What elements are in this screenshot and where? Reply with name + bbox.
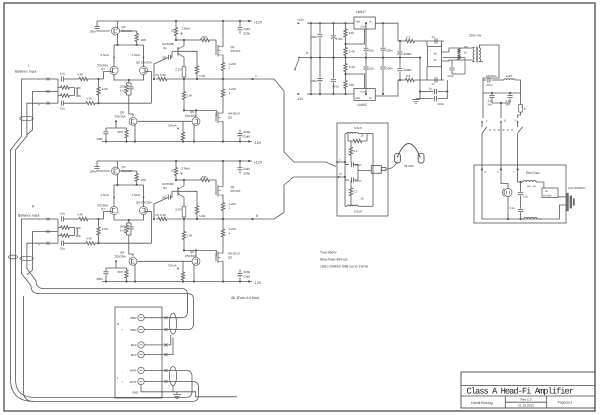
svg-text:0.2u: 0.2u bbox=[523, 195, 529, 198]
svg-text:10K: 10K bbox=[76, 94, 81, 98]
svg-text:Slew Rate 40V-uS: Slew Rate 40V-uS bbox=[320, 258, 348, 262]
svg-text:47u: 47u bbox=[120, 88, 125, 92]
svg-text:WHT: WHT bbox=[130, 369, 137, 373]
svg-text:-12V: -12V bbox=[297, 97, 305, 101]
svg-text:Hamit Boztug: Hamit Boztug bbox=[471, 401, 493, 405]
svg-text:RED: RED bbox=[130, 316, 136, 320]
svg-text:Rx 2.2K: Rx 2.2K bbox=[156, 73, 167, 77]
svg-text:1M: 1M bbox=[464, 45, 469, 49]
svg-text:RED: RED bbox=[130, 328, 136, 332]
svg-text:+12V: +12V bbox=[297, 18, 305, 22]
svg-text:220VAC: 220VAC bbox=[486, 74, 497, 78]
svg-text:100u: 100u bbox=[310, 35, 317, 39]
svg-text:B4: B4 bbox=[163, 46, 167, 50]
svg-text:2kV: 2kV bbox=[488, 103, 493, 106]
svg-text:300: 300 bbox=[117, 130, 122, 134]
svg-text:1n: 1n bbox=[431, 35, 435, 39]
svg-text:+: + bbox=[122, 328, 124, 332]
svg-text:E: E bbox=[504, 118, 506, 122]
svg-text:2200u: 2200u bbox=[404, 68, 413, 72]
svg-text:Page(s):1: Page(s):1 bbox=[558, 401, 573, 405]
svg-text:10: 10 bbox=[171, 29, 175, 33]
svg-text:240: 240 bbox=[349, 31, 354, 35]
svg-text:100: 100 bbox=[162, 56, 167, 60]
svg-text:Line 220VAC: Line 220VAC bbox=[568, 186, 586, 190]
svg-text:Gold: Gold bbox=[244, 27, 251, 31]
svg-text:100: 100 bbox=[141, 38, 146, 42]
svg-text:10: 10 bbox=[464, 50, 468, 54]
svg-text:Gold: Gold bbox=[244, 135, 251, 139]
svg-text:220VAC: 220VAC bbox=[543, 195, 552, 198]
svg-text:2.2: 2.2 bbox=[406, 36, 411, 40]
svg-text:470u: 470u bbox=[336, 37, 343, 41]
svg-text:-: - bbox=[38, 78, 39, 82]
svg-text:F: F bbox=[524, 107, 526, 111]
svg-text:+: + bbox=[122, 380, 124, 384]
svg-text:2SK30A: 2SK30A bbox=[185, 114, 196, 118]
svg-text:470u: 470u bbox=[332, 84, 339, 88]
svg-text:-12V: -12V bbox=[254, 141, 262, 145]
svg-text:BLK: BLK bbox=[131, 343, 137, 347]
svg-text:100n: 100n bbox=[89, 30, 96, 34]
svg-text:1.5K: 1.5K bbox=[186, 94, 192, 98]
svg-text:10u: 10u bbox=[369, 49, 374, 53]
svg-text:21.10.2012: 21.10.2012 bbox=[518, 403, 534, 407]
svg-text:+12V: +12V bbox=[254, 20, 263, 24]
svg-text:10K: 10K bbox=[76, 86, 81, 90]
svg-text:EMI Filter: EMI Filter bbox=[526, 171, 541, 175]
svg-text:220u: 220u bbox=[244, 130, 251, 134]
svg-text:Rev 1.0: Rev 1.0 bbox=[521, 398, 532, 402]
svg-text:10u: 10u bbox=[369, 67, 374, 71]
svg-text:300n: 300n bbox=[96, 137, 103, 141]
svg-text:100n: 100n bbox=[438, 102, 445, 106]
svg-text:10: 10 bbox=[361, 197, 365, 201]
svg-text:15u: 15u bbox=[60, 106, 65, 110]
svg-text:AC: AC bbox=[434, 53, 438, 56]
svg-text:BLK: BLK bbox=[131, 353, 137, 357]
svg-text:3.0mA: 3.0mA bbox=[182, 26, 191, 30]
svg-text:32 ohm: 32 ohm bbox=[404, 164, 415, 168]
svg-text:2.4K: 2.4K bbox=[349, 65, 355, 69]
svg-text:Q7: Q7 bbox=[101, 67, 105, 71]
svg-text:240: 240 bbox=[349, 83, 354, 87]
svg-text:1u: 1u bbox=[429, 86, 433, 90]
svg-text:-: - bbox=[122, 369, 123, 373]
svg-text:100n: 100n bbox=[386, 49, 393, 53]
svg-text:WHT: WHT bbox=[130, 380, 137, 384]
svg-text:All JFets 4-4.5mA: All JFets 4-4.5mA bbox=[231, 296, 260, 300]
svg-text:4.4K: 4.4K bbox=[86, 97, 92, 101]
svg-text:E: E bbox=[497, 171, 499, 174]
svg-text:1uH7: 1uH7 bbox=[506, 74, 513, 78]
svg-text:IRF510: IRF510 bbox=[231, 49, 241, 53]
svg-text:LM337: LM337 bbox=[358, 103, 368, 107]
svg-text:Tum 50mV: Tum 50mV bbox=[320, 251, 337, 255]
svg-text:GND: GND bbox=[132, 391, 138, 395]
svg-text:100n: 100n bbox=[355, 163, 362, 167]
svg-text:2.2: 2.2 bbox=[354, 190, 358, 194]
svg-text:L: L bbox=[28, 64, 30, 68]
svg-text:0.2uH: 0.2uH bbox=[354, 126, 362, 130]
svg-text:0.2u: 0.2u bbox=[510, 207, 516, 210]
svg-text:L: L bbox=[256, 74, 258, 78]
svg-text:470n: 470n bbox=[486, 83, 493, 87]
svg-text:-: - bbox=[429, 62, 430, 66]
svg-text:220V 4W: 220V 4W bbox=[469, 34, 482, 38]
svg-text:-: - bbox=[122, 316, 123, 320]
svg-text:3.0mA: 3.0mA bbox=[168, 123, 177, 127]
svg-text:100: 100 bbox=[202, 35, 207, 39]
svg-text:15u: 15u bbox=[60, 72, 65, 76]
svg-text:R: R bbox=[340, 172, 342, 176]
svg-text:100u: 100u bbox=[310, 79, 317, 83]
svg-text:2.2K: 2.2K bbox=[102, 87, 108, 91]
svg-text:AC: AC bbox=[434, 59, 438, 62]
svg-text:0.2uH: 0.2uH bbox=[354, 209, 362, 213]
svg-text:2.2: 2.2 bbox=[354, 149, 358, 153]
svg-text:Ballance Input: Ballance Input bbox=[15, 70, 37, 74]
svg-text:470p: 470p bbox=[447, 74, 454, 78]
svg-text:4.4K: 4.4K bbox=[77, 73, 83, 77]
svg-text:Ballance Input: Ballance Input bbox=[18, 213, 40, 217]
svg-text:100n: 100n bbox=[386, 67, 393, 71]
svg-text:2200u: 2200u bbox=[404, 52, 413, 56]
svg-text:Class A Head-Fi Amplifier: Class A Head-Fi Amplifier bbox=[467, 387, 574, 397]
svg-text:2SK30A: 2SK30A bbox=[115, 114, 126, 118]
svg-text:220u: 220u bbox=[244, 32, 251, 36]
svg-text:Out: Out bbox=[356, 20, 361, 24]
svg-text:2.2: 2.2 bbox=[406, 74, 411, 78]
svg-text:1.5mA: 1.5mA bbox=[100, 53, 109, 57]
svg-text:LM317: LM317 bbox=[356, 10, 366, 14]
svg-text:Out: Out bbox=[356, 96, 361, 100]
svg-text:Q6 2SK30A: Q6 2SK30A bbox=[136, 60, 152, 64]
svg-text:100n: 100n bbox=[355, 179, 362, 183]
svg-text:5.6K: 5.6K bbox=[199, 74, 205, 78]
svg-text:2kV: 2kV bbox=[506, 103, 511, 106]
svg-text:Q2: Q2 bbox=[228, 116, 232, 120]
svg-text:2.4K: 2.4K bbox=[349, 49, 355, 53]
svg-text:10: 10 bbox=[361, 133, 365, 137]
svg-text:1.5mA: 1.5mA bbox=[132, 53, 141, 57]
svg-text:10Hz-100KHz 0dB out to 1Vrms: 10Hz-100KHz 0dB out to 1Vrms bbox=[320, 265, 368, 269]
svg-text:2.2V: 2.2V bbox=[175, 67, 181, 71]
